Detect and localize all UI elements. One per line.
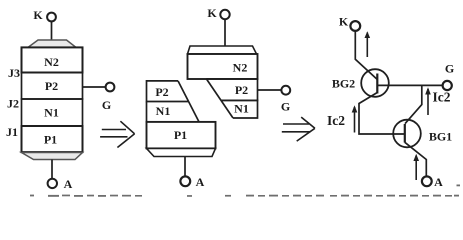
terminal A (middle structure)	[180, 175, 204, 189]
layer N1	[22, 99, 83, 126]
wire BG1 emitter to A	[405, 142, 427, 176]
terminal G (middle structure)	[281, 86, 290, 114]
lower block diagonal cut	[178, 81, 199, 122]
wire K to upper block	[224, 19, 226, 46]
small mark right margin	[457, 185, 461, 187]
terminal K (equivalent circuit)	[339, 15, 360, 31]
terminal A (left structure)	[48, 177, 73, 191]
wire K to cathode contact	[51, 22, 53, 40]
svg-text:K: K	[207, 6, 217, 20]
svg-text:P1: P1	[174, 128, 187, 142]
svg-text:G: G	[102, 98, 111, 112]
current arrow right (Ic2)	[425, 87, 451, 115]
transistor BG2	[332, 69, 389, 97]
terminal G (left structure)	[102, 83, 115, 112]
svg-text:A: A	[64, 177, 73, 191]
double arrow 2	[282, 117, 315, 141]
svg-text:J1: J1	[6, 125, 18, 139]
current arrow at K	[365, 31, 371, 57]
terminal K (middle structure)	[207, 6, 229, 20]
svg-text:N1: N1	[156, 104, 171, 118]
svg-text:P2: P2	[155, 85, 168, 99]
layer P1	[22, 126, 83, 152]
transistor BG1	[393, 120, 452, 148]
upper block layer P2	[206, 79, 257, 101]
lower block layer P2	[147, 81, 189, 102]
layer P2	[22, 73, 83, 100]
svg-text:N2: N2	[44, 55, 59, 69]
svg-text:N2: N2	[233, 61, 248, 75]
svg-text:J2: J2	[7, 97, 19, 111]
anode contact plate (middle)	[147, 148, 216, 156]
gate wire (left structure)	[83, 86, 106, 88]
wire anode contact to A	[51, 160, 53, 179]
terminal A (equivalent circuit)	[422, 175, 443, 189]
svg-text:K: K	[33, 8, 43, 22]
base wire BG2 to G	[377, 84, 442, 86]
upper block layer N2	[188, 54, 258, 79]
upper block diagonal cut	[206, 79, 233, 118]
svg-text:P2: P2	[235, 83, 248, 97]
svg-text:N1: N1	[44, 106, 59, 120]
svg-text:BG2: BG2	[332, 77, 355, 91]
layer N2	[22, 47, 83, 72]
svg-text:Ic2: Ic2	[433, 90, 451, 105]
lower block layer N1	[147, 102, 200, 122]
cropped caption remnants along bottom edge	[30, 185, 460, 197]
wire G branch down to BG1 collector	[405, 85, 422, 123]
svg-text:BG1: BG1	[429, 130, 452, 144]
cathode contact plate	[28, 40, 76, 47]
terminal K (left structure)	[33, 8, 56, 22]
anode contact plate	[22, 153, 83, 160]
svg-text:P1: P1	[44, 133, 57, 147]
svg-text:Ic2: Ic2	[327, 113, 345, 128]
svg-text:K: K	[339, 15, 349, 29]
upper block layer N1	[221, 100, 258, 118]
cathode contact plate (middle)	[188, 46, 257, 54]
wire K to BG2 emitter	[355, 31, 377, 80]
svg-text:J3: J3	[8, 66, 20, 80]
BG2 collector wire down to BG1 base	[359, 93, 405, 135]
svg-text:A: A	[196, 175, 205, 189]
double arrow 1	[100, 121, 135, 147]
svg-text:A: A	[434, 175, 443, 189]
terminal G (equivalent circuit)	[443, 62, 455, 91]
svg-text:P2: P2	[45, 79, 58, 93]
svg-text:G: G	[281, 100, 290, 114]
svg-text:N1: N1	[234, 102, 249, 116]
svg-text:G: G	[445, 62, 454, 76]
current arrow at A	[413, 154, 419, 180]
gate wire (middle structure)	[258, 89, 282, 91]
wire lower block to A	[184, 157, 186, 177]
current arrow left (Ic2)	[327, 105, 357, 132]
lower block layer P1	[147, 122, 216, 148]
